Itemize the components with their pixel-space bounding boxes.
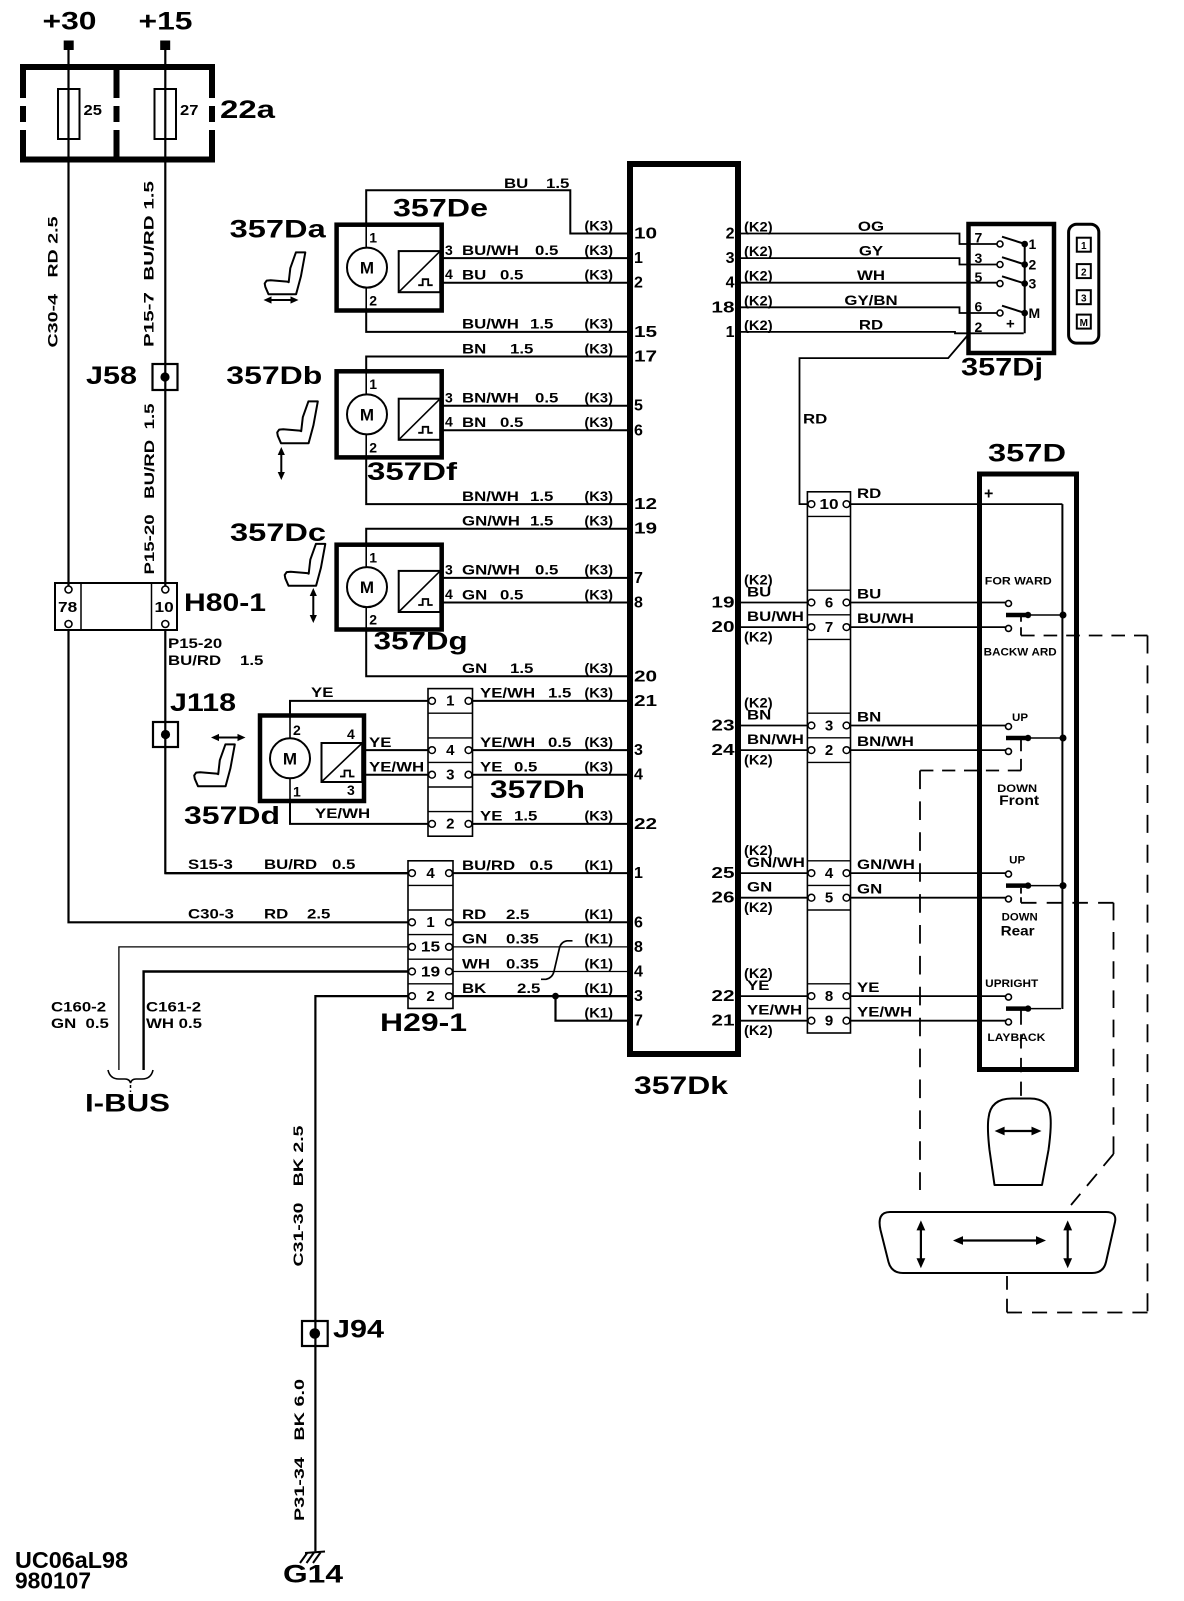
svg-text:1: 1 xyxy=(369,230,377,246)
wire label YE/WH xyxy=(369,758,424,774)
wire label YE 1.5 (K3) xyxy=(480,808,613,824)
svg-text:21: 21 xyxy=(634,693,657,710)
wire YE from 357Dd pin2 to 357Dh pin1 xyxy=(290,701,429,716)
wire label WH 0.35 (K1) xyxy=(462,955,613,971)
svg-text:BU/RD: BU/RD xyxy=(462,857,515,873)
intermediate connector strip (pins 10,6,7,3,2,4,5,8,9) xyxy=(807,492,850,1033)
svg-text:GN 0.5: GN 0.5 xyxy=(51,1015,109,1031)
svg-text:I-BUS: I-BUS xyxy=(85,1090,170,1118)
svg-text:8: 8 xyxy=(634,595,643,612)
svg-text:357De: 357De xyxy=(393,195,488,223)
svg-text:OG: OG xyxy=(858,218,884,234)
svg-text:17: 17 xyxy=(634,349,657,366)
wire BK 2.5 from H29-1 pin2 to 357Dk pin3 xyxy=(453,995,628,997)
svg-text:YE: YE xyxy=(857,979,879,995)
wire label YE 0.5 (K3) xyxy=(480,759,613,775)
wire GN 0.35 from H29-1 pin15 to 357Dk pin8 xyxy=(453,946,628,948)
svg-text:G14: G14 xyxy=(283,1561,343,1589)
svg-text:RD: RD xyxy=(803,411,827,427)
svg-text:BU/RD: BU/RD xyxy=(168,652,221,668)
svg-text:UP: UP xyxy=(1009,854,1025,866)
svg-text:M: M xyxy=(360,578,374,597)
svg-text:6: 6 xyxy=(634,422,643,439)
supply bus inside 357D xyxy=(1061,504,1063,1009)
svg-text:(K3): (K3) xyxy=(584,660,613,676)
wire label 3 GN/WH 0.5 (K3) xyxy=(462,562,613,578)
motor 357Dd (backrest recline) with position sensor xyxy=(260,716,364,802)
wire GN from strip to 357D switch xyxy=(849,897,1006,899)
svg-text:GN: GN xyxy=(462,931,487,947)
svg-text:BU/WH: BU/WH xyxy=(462,316,519,332)
svg-text:C30-4 RD 2.5: C30-4 RD 2.5 xyxy=(45,216,61,347)
svg-text:0.5: 0.5 xyxy=(514,759,538,775)
wire BU 0.5 from 357Da pin4 to 357Dk pin2 xyxy=(442,282,628,284)
svg-text:(K2): (K2) xyxy=(744,219,773,235)
svg-text:1.5: 1.5 xyxy=(514,808,538,824)
wire label 4 GN 0.5 (K3) xyxy=(462,586,613,602)
wire label P31-34 BK 6.0 (rotated) xyxy=(291,1379,307,1521)
svg-text:25: 25 xyxy=(84,102,102,119)
ground G14 xyxy=(283,1552,343,1589)
svg-text:M: M xyxy=(1080,318,1088,329)
switch unit 357Dj (memory selector) xyxy=(969,224,1055,353)
+ supply label inside 357D xyxy=(984,486,993,503)
svg-text:1: 1 xyxy=(634,250,643,267)
svg-text:3: 3 xyxy=(726,250,735,267)
svg-text:1: 1 xyxy=(293,784,301,800)
svg-text:(K1): (K1) xyxy=(584,955,613,971)
svg-text:0.5: 0.5 xyxy=(535,562,559,578)
footer plate UC06aL98 980107 xyxy=(15,1547,128,1594)
wire label YE xyxy=(311,684,333,700)
svg-text:BU: BU xyxy=(857,586,881,602)
svg-text:4: 4 xyxy=(446,742,455,759)
svg-text:2: 2 xyxy=(975,319,983,335)
svg-text:YE: YE xyxy=(369,734,391,750)
wire WH 0.5 (I-bus) from H29-1 pin19 xyxy=(144,972,409,1071)
svg-text:4: 4 xyxy=(634,767,643,784)
svg-text:0.5: 0.5 xyxy=(535,242,559,258)
svg-text:18: 18 xyxy=(711,299,734,316)
svg-text:H29-1: H29-1 xyxy=(380,1009,467,1037)
wire BN/WH from 357Dk to connector strip xyxy=(740,749,809,751)
svg-text:YE/WH: YE/WH xyxy=(480,734,535,750)
wire +30 / C30-4 RD 2.5 down to H80-1 pin 78 and on to H29-1 pin 1 xyxy=(69,50,410,922)
svg-text:(K1): (K1) xyxy=(584,906,613,922)
svg-text:1: 1 xyxy=(369,550,377,566)
svg-text:7: 7 xyxy=(825,619,833,636)
wire label GN/WH 1.5 (K3) xyxy=(462,513,613,529)
svg-text:(K2): (K2) xyxy=(744,292,773,308)
svg-text:BACKW ARD: BACKW ARD xyxy=(984,647,1057,659)
svg-text:(K3): (K3) xyxy=(584,340,613,356)
label 357Dc xyxy=(230,519,326,547)
svg-text:C31-30 BK 2.5: C31-30 BK 2.5 xyxy=(290,1125,306,1266)
wire YE/WH from strip to 357D switch xyxy=(849,1020,1006,1022)
svg-text:DOWN: DOWN xyxy=(1002,911,1038,923)
svg-text:FOR WARD: FOR WARD xyxy=(985,575,1052,587)
svg-text:2: 2 xyxy=(726,226,735,243)
label 357Dg xyxy=(374,628,468,656)
wire label 4 BN 0.5 (K3) xyxy=(462,414,613,430)
UPRIGHT/LAYBACK switch in 357D xyxy=(985,978,1061,1044)
svg-text:BN/WH: BN/WH xyxy=(462,390,519,406)
svg-text:15: 15 xyxy=(634,324,657,341)
wire label 3 BN/WH 0.5 (K3) xyxy=(462,390,613,406)
svg-text:2: 2 xyxy=(634,275,643,292)
svg-text:7: 7 xyxy=(634,570,643,587)
svg-text:2: 2 xyxy=(369,439,377,455)
svg-text:YE/WH: YE/WH xyxy=(747,1002,802,1018)
svg-text:0.5: 0.5 xyxy=(500,414,524,430)
svg-text:(K3): (K3) xyxy=(584,242,613,258)
UP/DOWN Rear switch in 357D xyxy=(1001,854,1067,938)
wire YE/WH 0.5 from 357Dh pin4 to 357Dk pin3 xyxy=(473,749,629,751)
junction J118 xyxy=(153,689,236,747)
svg-text:0.5: 0.5 xyxy=(332,856,356,872)
wire labels YE / YE/WH right of strip xyxy=(857,979,912,1020)
svg-text:6: 6 xyxy=(975,299,983,315)
motor 357Dc (seat rear height) with position sensor xyxy=(337,545,453,630)
svg-text:GN/WH: GN/WH xyxy=(462,562,520,578)
wire YE/WH 1.5 from 357Dh pin1 to 357Dk pin21 xyxy=(473,700,629,702)
svg-text:1: 1 xyxy=(634,865,643,882)
svg-text:(K3): (K3) xyxy=(584,562,613,578)
svg-text:6: 6 xyxy=(634,914,643,931)
svg-text:78: 78 xyxy=(58,599,77,616)
svg-text:BU: BU xyxy=(747,584,771,600)
wire RD from 357Dk to 357Dj xyxy=(740,332,1024,333)
svg-text:GY/BN: GY/BN xyxy=(844,292,897,308)
svg-text:C161-2: C161-2 xyxy=(146,999,201,1015)
wire label GN 1.5 (K3) xyxy=(462,660,613,676)
wire BN 1.5 from 357Db pin1 to 357Dk pin17 xyxy=(366,357,628,372)
wire labels BN / BN/WH right of strip xyxy=(857,709,914,750)
svg-text:3: 3 xyxy=(446,767,454,784)
svg-text:0.5: 0.5 xyxy=(500,586,524,602)
svg-text:(K3): (K3) xyxy=(584,808,613,824)
svg-text:2: 2 xyxy=(369,293,377,309)
svg-text:26: 26 xyxy=(711,890,734,907)
label 357Df xyxy=(367,458,458,486)
svg-text:4: 4 xyxy=(347,726,355,742)
wire label RD 2.5 (K1) xyxy=(462,906,613,922)
power terminal +15 xyxy=(139,8,193,51)
svg-text:1: 1 xyxy=(369,376,377,392)
wire GN/WH from strip to 357D switch xyxy=(849,872,1006,874)
svg-text:WH: WH xyxy=(857,267,885,283)
svg-text:3: 3 xyxy=(975,250,983,266)
svg-text:LAYBACK: LAYBACK xyxy=(987,1032,1045,1044)
svg-text:4: 4 xyxy=(426,865,435,882)
svg-text:1.5: 1.5 xyxy=(240,652,264,668)
wire labels (K2) BN / BN/WH left of strip xyxy=(744,695,804,768)
wire labels (K2) YE / YE/WH left of strip xyxy=(744,965,802,1038)
wire GN/WH 0.5 from 357Dc pin3 to 357Dk pin7 xyxy=(442,577,628,579)
svg-text:3: 3 xyxy=(1029,276,1037,292)
svg-text:H80-1: H80-1 xyxy=(184,589,266,617)
wire GN from 357Dk to connector strip xyxy=(740,897,809,899)
wire BN/WH 0.5 from 357Db pin3 to 357Dk pin5 xyxy=(442,405,628,407)
svg-text:2: 2 xyxy=(1029,257,1037,273)
svg-text:357D: 357D xyxy=(988,439,1066,467)
svg-text:19: 19 xyxy=(421,963,440,980)
dashed link from FORWARD/BACKWARD switch to control handle xyxy=(1007,614,1148,1313)
label H80-1 xyxy=(184,589,266,617)
svg-text:22a: 22a xyxy=(220,96,276,124)
wire BU/WH 1.5 from 357Da pin2 to 357Dk pin15 xyxy=(366,311,628,332)
wire labels GN/WH / GN right of strip xyxy=(857,856,915,897)
svg-text:2: 2 xyxy=(1081,267,1087,278)
control module 357Dk (memory seat module connector) xyxy=(630,164,738,1054)
svg-text:357Dc: 357Dc xyxy=(230,519,326,547)
svg-text:1.5: 1.5 xyxy=(510,340,534,356)
wire WH 0.35 from H29-1 pin19 to 357Dk pin4 xyxy=(453,971,628,973)
svg-text:2.5: 2.5 xyxy=(506,906,530,922)
svg-text:BU/WH: BU/WH xyxy=(747,608,804,624)
svg-text:2.5: 2.5 xyxy=(517,980,541,996)
wire label RD right of strip xyxy=(857,485,881,501)
svg-text:GN: GN xyxy=(857,881,882,897)
svg-text:1: 1 xyxy=(1029,236,1037,252)
svg-text:S15-3: S15-3 xyxy=(188,856,233,872)
svg-text:C160-2: C160-2 xyxy=(51,999,106,1015)
svg-text:(K3): (K3) xyxy=(584,390,613,406)
wire label C161-2 WH 0.5 xyxy=(146,999,202,1032)
svg-text:3: 3 xyxy=(1081,293,1087,304)
svg-text:GN/WH: GN/WH xyxy=(462,513,520,529)
wire BU from 357Dk to connector strip xyxy=(740,602,809,604)
svg-text:P15-20: P15-20 xyxy=(168,635,222,651)
svg-text:1: 1 xyxy=(1081,241,1087,252)
wire BN/WH from strip to 357D switch xyxy=(849,749,1006,751)
svg-text:(K2): (K2) xyxy=(744,752,773,768)
label 357Dh xyxy=(490,776,585,804)
svg-text:3: 3 xyxy=(634,988,643,1005)
wire BU 1.5 from 357Da pin1 to 357Dk pin10 xyxy=(366,190,628,233)
RD branch wire from 357Dj pin2 down to intermediate connector pin10 xyxy=(800,336,968,505)
label 22a xyxy=(220,96,276,124)
svg-text:(K3): (K3) xyxy=(584,267,613,283)
svg-text:10: 10 xyxy=(634,226,657,243)
wire labels (K2) GN/WH / GN left of strip xyxy=(744,842,805,915)
wire label (K2) OG xyxy=(744,218,884,235)
svg-text:BN/WH: BN/WH xyxy=(462,488,519,504)
svg-text:23: 23 xyxy=(711,718,734,735)
svg-text:1.5: 1.5 xyxy=(546,175,570,191)
I-BUS brace and label xyxy=(85,1070,170,1118)
svg-text:8: 8 xyxy=(825,988,833,1005)
svg-text:4: 4 xyxy=(825,865,834,882)
svg-text:8: 8 xyxy=(634,939,643,956)
svg-text:10: 10 xyxy=(819,496,838,513)
svg-text:(K3): (K3) xyxy=(584,217,613,233)
svg-text:4: 4 xyxy=(445,586,453,602)
svg-text:(K3): (K3) xyxy=(584,586,613,602)
label 357Dj xyxy=(961,354,1043,382)
wire label YE/WH 1.5 (K3) xyxy=(480,685,613,701)
svg-text:YE: YE xyxy=(480,759,502,775)
wire label (K2) GY/BN xyxy=(744,292,898,309)
svg-text:WH: WH xyxy=(462,955,490,971)
svg-text:GY: GY xyxy=(859,243,884,259)
wire label (K2) RD xyxy=(744,316,883,333)
wire S15-3 BU/RD 0.5 from J118 to H29-1 pin4 xyxy=(165,872,409,874)
svg-text:4: 4 xyxy=(634,964,643,981)
svg-text:+15: +15 xyxy=(139,8,193,36)
svg-text:J118: J118 xyxy=(170,689,236,717)
svg-text:GN/WH: GN/WH xyxy=(857,856,915,872)
wire label S15-3 BU/RD 0.5 xyxy=(188,856,356,872)
svg-text:YE/WH: YE/WH xyxy=(857,1004,912,1020)
svg-text:P15-7 BU/RD 1.5: P15-7 BU/RD 1.5 xyxy=(141,181,157,347)
svg-text:357Dg: 357Dg xyxy=(374,628,468,656)
svg-text:(K2): (K2) xyxy=(744,317,773,333)
svg-text:BN/WH: BN/WH xyxy=(857,733,914,749)
svg-text:BN: BN xyxy=(462,340,486,356)
motor 357Da (seat fore/aft) with position sensor xyxy=(337,225,453,311)
svg-text:3: 3 xyxy=(445,562,453,578)
svg-text:(K2): (K2) xyxy=(744,1022,773,1038)
svg-text:BU: BU xyxy=(462,267,486,283)
svg-text:1.5: 1.5 xyxy=(530,488,554,504)
wire RD 2.5 from H29-1 pin1 to 357Dk pin6 xyxy=(453,921,628,923)
svg-text:M: M xyxy=(1029,305,1041,321)
svg-text:GN: GN xyxy=(747,879,772,895)
wire label BU/RD 0.5 (K1) xyxy=(462,857,613,873)
wire GN/WH from 357Dk to connector strip xyxy=(740,872,809,874)
svg-text:+: + xyxy=(1006,316,1015,333)
svg-text:(K2): (K2) xyxy=(744,899,773,915)
svg-text:(K3): (K3) xyxy=(584,685,613,701)
connector H29-1 xyxy=(408,861,453,1009)
svg-text:RD: RD xyxy=(462,906,486,922)
svg-text:22: 22 xyxy=(634,816,657,833)
wire YE/WH from 357Dk to connector strip xyxy=(740,1020,809,1022)
dashed link from Front switch to control handle xyxy=(920,740,1021,1191)
label 357Da xyxy=(230,216,327,244)
label 357Db xyxy=(226,362,322,390)
wire label 3 BU/WH 0.5 (K3) xyxy=(462,242,613,258)
wire label RD (vertical run) xyxy=(803,411,827,427)
wire label C30-4 RD 2.5 (rotated) xyxy=(45,216,61,347)
svg-text:24: 24 xyxy=(711,742,734,759)
wire BU/WH 0.5 from 357Da pin3 to 357Dk pin1 xyxy=(442,257,628,259)
svg-text:0.5: 0.5 xyxy=(500,267,524,283)
svg-text:(K2): (K2) xyxy=(744,243,773,259)
wire label P15-20 BU/RD 1.5 (rotated, below J58) xyxy=(141,403,157,574)
svg-text:357Da: 357Da xyxy=(230,216,327,244)
svg-text:3: 3 xyxy=(825,717,833,734)
svg-text:0.5: 0.5 xyxy=(530,857,554,873)
svg-text:GN: GN xyxy=(462,586,487,602)
wire YE from 357Dk to connector strip xyxy=(740,995,809,997)
svg-text:UP: UP xyxy=(1012,712,1028,724)
wire YE/WH from 357Dd pin1 to 357Dh pin2 xyxy=(290,801,429,824)
svg-text:BU: BU xyxy=(504,175,528,191)
svg-text:9: 9 xyxy=(825,1013,833,1030)
svg-text:RD: RD xyxy=(859,316,883,332)
svg-text:(K3): (K3) xyxy=(584,414,613,430)
fuse 25 xyxy=(58,89,102,139)
svg-text:BN: BN xyxy=(747,707,771,723)
svg-text:357Dk: 357Dk xyxy=(634,1072,728,1100)
svg-text:19: 19 xyxy=(634,521,657,538)
seat icon for 357Da (fore/aft adjust) xyxy=(264,252,306,303)
seat control handle symbol xyxy=(880,1212,1116,1273)
svg-text:1: 1 xyxy=(726,324,735,341)
junction J58 xyxy=(86,362,178,390)
svg-text:7: 7 xyxy=(975,230,983,246)
wire WH from 357Dk to 357Dj xyxy=(740,282,998,284)
svg-text:1: 1 xyxy=(426,914,434,931)
wire label P15-7 BU/RD 1.5 (rotated) xyxy=(141,181,157,347)
svg-text:2: 2 xyxy=(369,612,377,628)
svg-text:C30-3: C30-3 xyxy=(188,905,234,921)
svg-text:Rear: Rear xyxy=(1001,923,1036,939)
wire BN/WH 1.5 from 357Db pin2 to 357Dk pin12 xyxy=(366,457,628,504)
svg-text:0.5: 0.5 xyxy=(548,734,572,750)
svg-text:2: 2 xyxy=(426,988,434,1005)
wire YE from strip to 357D switch xyxy=(849,995,1006,997)
fuse box 22a xyxy=(20,64,215,163)
junction J94 xyxy=(302,1316,384,1346)
svg-text:357Db: 357Db xyxy=(226,362,322,390)
svg-text:357Df: 357Df xyxy=(367,458,458,486)
svg-text:21: 21 xyxy=(711,1013,734,1030)
svg-text:2: 2 xyxy=(293,722,301,738)
backrest control symbol xyxy=(988,1099,1051,1186)
wire GN 0.5 from 357Dc pin4 to 357Dk pin8 xyxy=(442,602,628,604)
svg-text:3: 3 xyxy=(445,242,453,258)
svg-text:(K3): (K3) xyxy=(584,316,613,332)
wire YE from 357Dd pin4 to 357Dh pin4 xyxy=(364,749,429,751)
twisted pair symbol xyxy=(541,941,573,980)
wire RD from strip pin10 to 357D supply xyxy=(849,503,1062,505)
label 357De xyxy=(393,195,488,223)
svg-text:357Dj: 357Dj xyxy=(961,354,1043,382)
wire BN from strip to 357D switch xyxy=(849,725,1006,727)
svg-text:Front: Front xyxy=(999,792,1039,808)
wire label C30-3 RD 2.5 xyxy=(188,905,331,921)
svg-text:(K1): (K1) xyxy=(584,931,613,947)
svg-text:19: 19 xyxy=(711,595,734,612)
svg-text:BN: BN xyxy=(462,414,486,430)
357Dk right pin numbers xyxy=(711,226,734,1030)
wire label BN 1.5 (K3) xyxy=(462,340,613,356)
svg-text:12: 12 xyxy=(634,496,657,513)
wire BN from 357Dk to connector strip xyxy=(740,725,809,727)
svg-text:RD: RD xyxy=(857,485,881,501)
wire BU from strip to 357D switch xyxy=(849,602,1006,604)
wire YE 0.5 from 357Dh pin3 to 357Dk pin4 xyxy=(473,774,629,776)
svg-text:(K2): (K2) xyxy=(744,629,773,645)
wire GY/BN from 357Dk to 357Dj xyxy=(740,307,998,313)
svg-text:2: 2 xyxy=(446,816,454,833)
label 357Dk xyxy=(634,1072,728,1100)
wire label C160-2 GN 0.5 xyxy=(51,999,109,1032)
wire BU/WH from 357Dk to connector strip xyxy=(740,626,809,628)
wire BU/WH from strip to 357D switch xyxy=(849,626,1006,628)
switch pack 357D (seat adjustment switches) xyxy=(980,474,1077,1070)
svg-text:BU/WH: BU/WH xyxy=(462,242,519,258)
svg-text:1.5: 1.5 xyxy=(548,685,572,701)
svg-text:7: 7 xyxy=(634,1013,643,1030)
svg-text:0.35: 0.35 xyxy=(506,955,539,971)
svg-text:2.5: 2.5 xyxy=(307,905,331,921)
wire label P15-20 BU/RD 1.5 below H80-1 xyxy=(168,635,264,668)
svg-text:WH 0.5: WH 0.5 xyxy=(146,1015,202,1031)
